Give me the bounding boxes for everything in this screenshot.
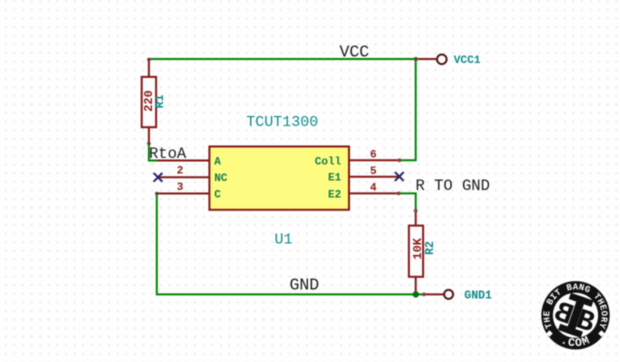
svg-text:A: A [214, 156, 221, 168]
svg-text:4: 4 [370, 183, 377, 195]
svg-text:TCUT1300: TCUT1300 [246, 114, 318, 131]
svg-text:RtoA: RtoA [149, 145, 187, 163]
svg-text:E2: E2 [328, 189, 341, 201]
svg-text:R2: R2 [424, 241, 437, 255]
svg-text:VCC: VCC [340, 43, 370, 62]
svg-text:5: 5 [370, 166, 377, 178]
svg-text:NC: NC [214, 173, 228, 185]
svg-text:6: 6 [370, 150, 377, 162]
svg-text:GND1: GND1 [464, 290, 492, 303]
svg-text:Coll: Coll [315, 156, 342, 168]
svg-text:U1: U1 [274, 232, 292, 249]
svg-text:R1: R1 [154, 95, 167, 109]
svg-text:C: C [214, 189, 221, 201]
svg-text:E1: E1 [328, 173, 342, 185]
svg-text:10K: 10K [411, 237, 425, 259]
svg-text:2: 2 [177, 165, 184, 177]
svg-text:GND: GND [290, 276, 320, 295]
svg-text:R TO GND: R TO GND [416, 177, 490, 195]
svg-text:3: 3 [177, 182, 184, 194]
svg-text:VCC1: VCC1 [454, 55, 481, 67]
